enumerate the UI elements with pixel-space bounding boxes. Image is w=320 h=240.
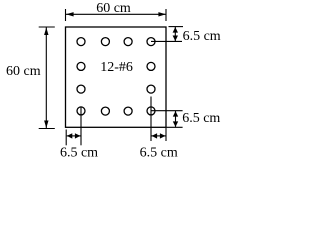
svg-text:6.5 cm: 6.5 cm (182, 111, 220, 126)
svg-text:6.5 cm: 6.5 cm (60, 146, 98, 161)
svg-text:6.5 cm: 6.5 cm (140, 146, 178, 161)
svg-text:6.5 cm: 6.5 cm (183, 29, 221, 44)
svg-text:60 cm: 60 cm (6, 64, 41, 79)
svg-text:12-#6: 12-#6 (100, 60, 133, 75)
svg-text:60 cm: 60 cm (96, 1, 131, 16)
